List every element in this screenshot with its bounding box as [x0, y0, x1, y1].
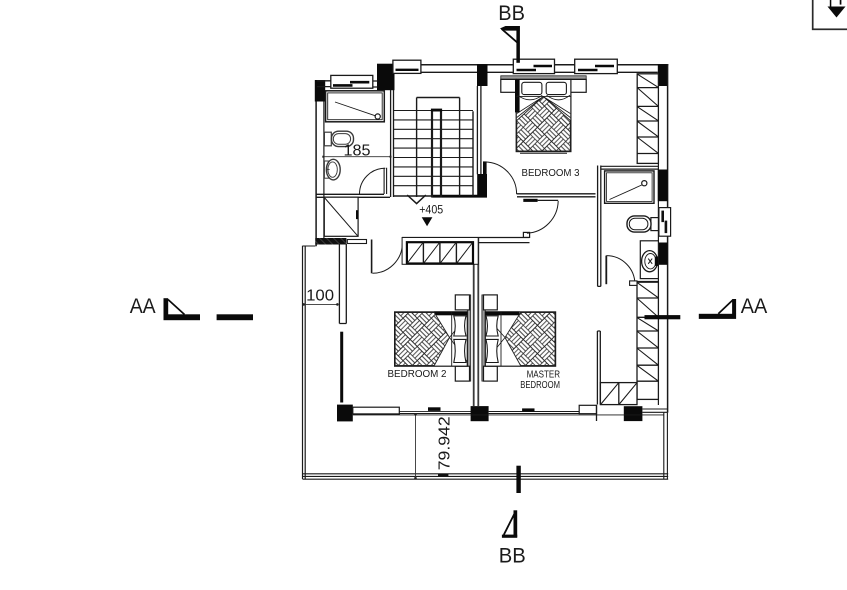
wall right outer line: [667, 64, 669, 413]
dimension 79.942 line: [414, 413, 417, 479]
bathtub: [326, 91, 385, 122]
column bottom 1 (black): [337, 405, 353, 422]
bathroom top wall right stub: [373, 81, 378, 87]
wall left outer line (bathroom): [315, 80, 317, 246]
marker AA right wall tick: [645, 315, 681, 319]
bed bedroom3 side table right: [571, 79, 586, 92]
bed bedroom3 second pillow row curves: [518, 95, 571, 100]
bed bedroom2 blanket (weave): [395, 313, 449, 366]
sink counter right bath: [640, 241, 658, 279]
column stair top-left (black): [377, 64, 395, 90]
dimension 185 line: [322, 156, 391, 158]
marker BB bottom tick: [516, 466, 520, 493]
sliding door lines left: [399, 411, 474, 413]
sink left bath: [324, 159, 340, 180]
bedroom3 door swing arc: [485, 162, 517, 194]
toilet right bath: [627, 216, 658, 232]
stringer top cap: [431, 109, 442, 112]
svg-text:79.942: 79.942: [437, 416, 454, 470]
wall right black segment at shower: [658, 170, 668, 202]
bed bedroom3 side table left: [501, 79, 516, 92]
ledge above balcony door: [347, 240, 366, 244]
stair landing U: [417, 98, 473, 197]
bed bedroom2 side table bottom: [455, 366, 469, 381]
niche window in right wall: [659, 208, 671, 237]
sliding panel left (black): [428, 407, 441, 411]
toilet left bath: [324, 131, 353, 146]
stair right wall: [477, 86, 481, 174]
column top-right corner (black): [658, 64, 668, 86]
window bedroom3 top 1: [513, 59, 554, 73]
sliding door lines right: [489, 412, 580, 414]
marker AA left flag: [164, 298, 201, 320]
bed bedroom2 headboard: [467, 295, 470, 381]
bed bedroom2 sheet line: [451, 312, 453, 366]
master east wall lower piece: [597, 331, 600, 405]
bed bedroom3 footboard line: [520, 152, 567, 154]
bed master black edge: [485, 311, 519, 315]
stair left wall: [391, 90, 394, 197]
svg-text:185: 185: [344, 142, 371, 159]
svg-text:BEDROOM 2: BEDROOM 2: [388, 369, 447, 380]
bed bedroom3 blanket (weave): [517, 97, 571, 151]
bed bedroom3 sheet line: [516, 95, 571, 97]
column stair top-right (black): [477, 64, 488, 86]
bed bedroom2 side table top: [455, 295, 469, 310]
storage closet with diagonal: [324, 197, 358, 236]
bed bedroom2 frame: [395, 312, 468, 366]
bed master headboard: [482, 295, 485, 381]
balcony right edge double line: [664, 413, 668, 479]
balcony gate mark: [438, 474, 448, 477]
marker AA right flag: [699, 299, 736, 319]
bedroom2 west window thick line: [340, 332, 343, 403]
bathroom bottom wall: [316, 194, 390, 197]
bathroom threshold double line: [630, 282, 658, 285]
bed master frame: [485, 312, 555, 366]
stair center stringer: [432, 110, 441, 198]
balcony bottom triple line: [303, 474, 669, 479]
dimension 100 line: [302, 303, 338, 306]
svg-text:100: 100: [306, 288, 334, 305]
bed master pillows: [486, 316, 498, 336]
sink right bath: [642, 251, 659, 272]
bedroom2 west wall double: [339, 244, 346, 324]
right bathroom door swing arc: [606, 256, 635, 285]
column stair bottom-right (black): [477, 174, 487, 198]
marker AA left dash: [217, 314, 253, 320]
bathroom top wall left stub: [317, 81, 331, 87]
svg-text:AA: AA: [130, 294, 157, 318]
stair bottom edge thick: [394, 195, 433, 197]
balcony inner floor line: [353, 414, 664, 416]
center wall double thick: [474, 237, 479, 406]
bed bedroom3 pillows: [522, 82, 542, 94]
window stairwell top: [393, 60, 421, 73]
window bedroom3 top 2: [575, 59, 618, 73]
master door leaf: [523, 199, 558, 202]
bedroom3 door leaf (black): [483, 161, 487, 174]
right bathroom west wall: [598, 166, 601, 287]
master closet ledge: [630, 281, 637, 286]
column bottom 2 (black): [471, 406, 489, 421]
bed bedroom3 fold lines: [517, 97, 571, 118]
stair treads: [394, 111, 473, 186]
bed bedroom3 black edge: [515, 79, 520, 112]
column left-top corner (black): [315, 80, 325, 102]
svg-text:BEDROOM 3: BEDROOM 3: [522, 168, 580, 179]
bed bedroom2 fold lines: [450, 315, 468, 362]
master top wall double: [402, 238, 530, 243]
bed bedroom3 headboard: [501, 76, 586, 79]
wall right inner line: [657, 86, 659, 405]
bed master fold lines: [485, 315, 505, 362]
wall left inner line: [323, 101, 325, 239]
window master bottom: [579, 405, 596, 413]
master closet horizontal run: [600, 383, 637, 405]
bed bedroom3 frame: [516, 79, 571, 151]
bathroom door swing arc: [360, 168, 386, 194]
bedroom3 closet column: [637, 74, 658, 164]
svg-text:BB: BB: [498, 1, 525, 25]
bathroom door leaf: [384, 168, 387, 194]
balcony door swing arc: [372, 243, 402, 273]
shower tray: [605, 171, 654, 203]
wall top inner line: [395, 71, 658, 73]
balcony door leaf: [371, 240, 373, 274]
window bathroom top: [331, 75, 373, 88]
bedroom3 bottom wall: [517, 194, 596, 197]
bed bedroom2 black edge: [434, 311, 467, 315]
column bottom 3 (black): [624, 406, 643, 421]
door stop notch: [523, 232, 529, 237]
window bedroom2 bottom: [353, 407, 400, 414]
balcony left edge double line: [303, 246, 306, 479]
bed master sheet line: [500, 312, 502, 366]
balcony top cap: [303, 245, 316, 247]
svg-text:BEDROOM: BEDROOM: [520, 380, 560, 391]
wall lines right of column 3: [642, 409, 667, 412]
marker BB bottom flag: [502, 510, 517, 538]
svg-text:AA: AA: [741, 294, 768, 318]
bed master side table bottom: [484, 366, 498, 381]
wall stub master bottom: [596, 405, 598, 421]
wall right black segment below niche: [658, 243, 668, 265]
right bathroom top wall: [601, 166, 658, 169]
bed master blanket (weave): [505, 313, 555, 366]
svg-text:+405: +405: [419, 204, 443, 216]
right bathroom door leaf: [605, 256, 607, 285]
stair direction line with V arrow: [416, 98, 418, 198]
sliding panel right (black): [522, 408, 534, 411]
marker BB top flag: [500, 26, 520, 63]
master closet column: [637, 282, 658, 399]
level marker filled triangle: [422, 217, 433, 226]
bed bedroom2 pillows: [454, 316, 466, 336]
svg-text:BB: BB: [499, 544, 526, 568]
master door swing arc: [527, 201, 558, 233]
bed master side table top: [484, 295, 498, 310]
wall top outer line: [377, 64, 668, 66]
dark hatched wall band: [315, 238, 346, 245]
